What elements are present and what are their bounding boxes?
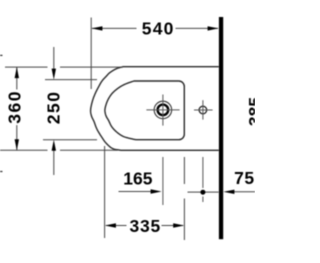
inner bowl outline xyxy=(105,81,184,140)
svg-text:250: 250 xyxy=(43,91,63,125)
dimension 360 arrows xyxy=(15,67,19,78)
dimension 165 arrow xyxy=(151,189,162,193)
drain point dot xyxy=(200,190,205,195)
svg-text:335: 335 xyxy=(129,216,161,236)
svg-text:360: 360 xyxy=(4,90,24,124)
dimension 250 arrow top xyxy=(53,47,55,70)
dimension 540 extension line left xyxy=(90,18,92,90)
dimension 335 extension right xyxy=(183,157,185,240)
dimension 360 extension bottom xyxy=(0,149,118,151)
cropped tick mark mid-left xyxy=(0,171,3,173)
svg-text:75: 75 xyxy=(234,168,255,188)
svg-text:540: 540 xyxy=(142,18,175,38)
dimension 335 extension left xyxy=(104,146,106,238)
drain point horizontal line xyxy=(188,191,219,193)
cropped tick mark top-left xyxy=(0,54,3,56)
tap hole crosshair xyxy=(146,95,179,126)
dimension 360 line xyxy=(16,67,18,150)
dimension 360 extension top xyxy=(5,66,123,68)
tap centerline extension xyxy=(162,157,164,205)
fixing hole circle xyxy=(199,106,207,114)
dimension 250 extension bottom xyxy=(43,139,97,141)
wall xyxy=(219,17,223,239)
svg-text:165: 165 xyxy=(123,169,152,189)
dimension 540 line xyxy=(92,27,218,29)
dimension 165 line xyxy=(119,191,159,193)
outer bidet outline xyxy=(91,67,219,151)
svg-text:385: 385 xyxy=(245,97,255,126)
dimension 540 arrows xyxy=(91,26,102,30)
tap hole outer circle xyxy=(154,101,172,119)
dimension 250 extension top xyxy=(45,79,97,81)
dimension 250 arrow bottom xyxy=(53,149,55,175)
fixing hole crosshair xyxy=(194,100,213,119)
dimension 335 line xyxy=(106,225,183,227)
drain centerline vertical xyxy=(202,157,204,202)
tap hole inner ring xyxy=(158,105,169,116)
dimension 335 arrows xyxy=(105,223,116,227)
dimension 75 arrow xyxy=(229,191,255,193)
